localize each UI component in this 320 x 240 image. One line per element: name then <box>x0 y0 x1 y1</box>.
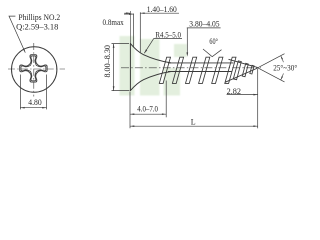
svg-text:R4.5–5.0: R4.5–5.0 <box>155 29 181 39</box>
svg-text:60°: 60° <box>209 36 218 46</box>
svg-text:L: L <box>191 118 196 127</box>
svg-text:Q:2.59–3.18: Q:2.59–3.18 <box>16 21 59 31</box>
svg-text:1.40–1.60: 1.40–1.60 <box>147 4 178 14</box>
svg-text:4.0–7.0: 4.0–7.0 <box>137 103 158 113</box>
svg-text:4.80: 4.80 <box>28 97 42 107</box>
svg-text:8.00–8.30: 8.00–8.30 <box>102 44 112 77</box>
svg-text:0.8max: 0.8max <box>103 17 125 27</box>
svg-text:2.82: 2.82 <box>227 86 241 96</box>
svg-text:25°~30°: 25°~30° <box>273 62 297 72</box>
svg-text:3.80–4.05: 3.80–4.05 <box>189 19 220 29</box>
